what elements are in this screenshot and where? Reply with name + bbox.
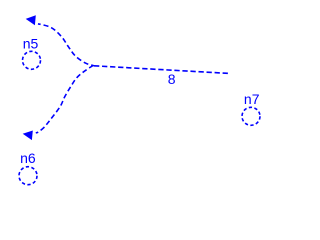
edge curve to upper-left arrow bbox=[38, 24, 94, 66]
svg-text:n6: n6 bbox=[20, 150, 36, 166]
svg-text:8: 8 bbox=[168, 71, 176, 87]
svg-text:n5: n5 bbox=[23, 36, 39, 52]
edge curve to lower-left arrow bbox=[36, 65, 94, 133]
node n5 circle bbox=[23, 51, 41, 69]
node n6 circle bbox=[19, 167, 37, 185]
node n7 circle bbox=[242, 107, 260, 125]
edge line labeled 8 bbox=[94, 66, 229, 74]
svg-text:n7: n7 bbox=[244, 91, 260, 107]
arrowhead lower-left bbox=[23, 131, 33, 141]
arrowhead upper-left bbox=[26, 15, 36, 25]
